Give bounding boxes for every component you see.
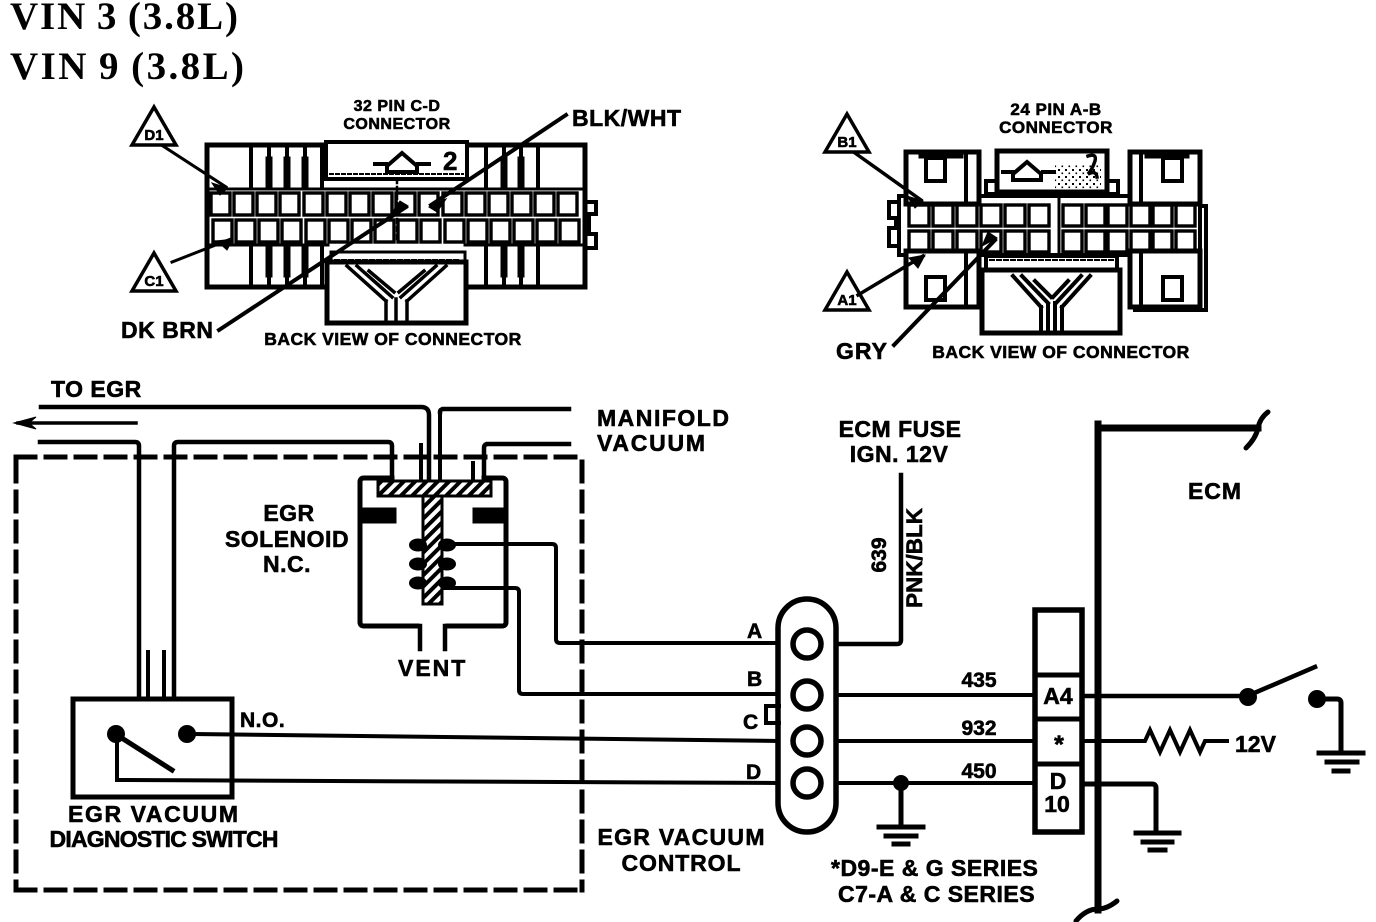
svg-text:VENT: VENT bbox=[398, 655, 467, 681]
svg-text:10: 10 bbox=[1044, 791, 1070, 817]
pin row 1 (16 cavities) bbox=[211, 193, 577, 215]
wire from coil top to pin A bbox=[444, 544, 779, 643]
svg-text:VACUUM: VACUUM bbox=[597, 430, 705, 456]
EGR pipe lower line left segment bbox=[40, 442, 139, 699]
wire 435 pin B to ECM A4 bbox=[836, 693, 1036, 697]
solenoid center port right line bbox=[438, 412, 442, 481]
svg-text:435: 435 bbox=[961, 669, 996, 692]
strip divider 3 bbox=[1035, 762, 1082, 767]
svg-text:BACK VIEW OF CONNECTOR: BACK VIEW OF CONNECTOR bbox=[932, 342, 1190, 362]
wire A4 to switch contact bbox=[1082, 694, 1244, 699]
EGR flow arrow bbox=[18, 421, 136, 425]
svg-text:D: D bbox=[746, 761, 761, 784]
leader BLK/WHT to pin bbox=[431, 115, 566, 205]
svg-text:VIN 9 (3.8L): VIN 9 (3.8L) bbox=[10, 45, 244, 88]
leader from A1 to connector bbox=[858, 256, 923, 295]
svg-text:D1: D1 bbox=[144, 127, 163, 144]
svg-text:DK BRN: DK BRN bbox=[121, 317, 213, 343]
EGR pipe lower line right segment / switch tee bbox=[174, 442, 392, 699]
top-right mounting block bbox=[1130, 152, 1200, 204]
keyway label plate bbox=[997, 151, 1107, 192]
pin B circle bbox=[793, 681, 821, 709]
switch arm bbox=[117, 735, 172, 770]
svg-text:932: 932 bbox=[961, 717, 996, 740]
wire switch to pin D bbox=[117, 780, 779, 783]
pin row 2 (12 cavities) bbox=[909, 231, 1195, 252]
plate dotted line bbox=[330, 173, 463, 175]
connector lock tab at C bbox=[766, 706, 779, 723]
solenoid left port stub bbox=[419, 445, 423, 481]
solenoid plunger (hatched) bbox=[423, 496, 442, 604]
top-right block hole bbox=[1163, 158, 1182, 181]
svg-text:CONNECTOR: CONNECTOR bbox=[343, 116, 450, 133]
plate arrow glyph bbox=[1003, 162, 1054, 180]
strain relief flap bbox=[331, 252, 465, 262]
solenoid pole piece right bbox=[473, 508, 506, 523]
solenoid EGR body outline bbox=[360, 478, 506, 626]
pin A circle bbox=[793, 630, 821, 658]
svg-text:SOLENOID: SOLENOID bbox=[225, 526, 349, 552]
svg-text:N.O.: N.O. bbox=[240, 709, 285, 732]
triangle B1 bbox=[825, 114, 869, 152]
svg-text:C1: C1 bbox=[144, 273, 163, 290]
svg-text:TO EGR: TO EGR bbox=[51, 376, 142, 402]
switch port inner tubes bbox=[148, 652, 164, 699]
plate arrow glyph bbox=[375, 153, 429, 172]
solenoid right port stub bbox=[471, 463, 475, 481]
leader from D1 to connector bbox=[163, 146, 226, 187]
strip divider 1 bbox=[1035, 673, 1082, 678]
wire to ground from switch bbox=[1319, 699, 1363, 771]
wire from coil bottom to pin B bbox=[444, 588, 779, 694]
junction dot on wire 450 bbox=[893, 775, 909, 791]
svg-text:CONNECTOR: CONNECTOR bbox=[999, 118, 1113, 137]
plate side hook left bbox=[986, 181, 997, 194]
strain relief Y strap bbox=[1013, 276, 1090, 331]
solenoid pole piece left bbox=[362, 508, 396, 523]
pin C circle bbox=[793, 727, 821, 755]
svg-text:ECM: ECM bbox=[1188, 478, 1242, 504]
connector top band divider line bbox=[208, 188, 584, 191]
svg-text:EGR VACUUM: EGR VACUUM bbox=[68, 801, 238, 827]
plate numeral 2 bbox=[1088, 155, 1097, 177]
ECM bottom break squiggle bbox=[1076, 901, 1117, 921]
svg-text:C: C bbox=[743, 711, 758, 734]
A4 switch contact dot left bbox=[1239, 688, 1257, 706]
EGR pipe upper line bbox=[41, 407, 429, 481]
plate side hook right bbox=[1107, 181, 1118, 194]
svg-text:639: 639 bbox=[868, 537, 891, 572]
svg-text:MANIFOLD: MANIFOLD bbox=[597, 405, 729, 431]
bottom-right mounting block bbox=[1130, 251, 1200, 307]
bottom wing slots left bbox=[251, 246, 322, 285]
svg-text:B1: B1 bbox=[837, 134, 856, 151]
svg-text:CONTROL: CONTROL bbox=[622, 850, 741, 876]
band right shadow edge bbox=[1135, 206, 1206, 310]
A4 switch arm bbox=[1252, 667, 1315, 694]
dashed enclosure box bbox=[16, 457, 582, 890]
svg-text:EGR: EGR bbox=[263, 500, 314, 526]
svg-text:ECM FUSE: ECM FUSE bbox=[839, 416, 962, 442]
svg-text:BLK/WHT: BLK/WHT bbox=[572, 105, 682, 131]
ECM boundary vertical bbox=[1095, 424, 1102, 910]
wire 639 pin A to ECM fuse bbox=[836, 475, 901, 644]
svg-text:2: 2 bbox=[443, 146, 457, 176]
solenoid coil turns bbox=[409, 539, 456, 590]
ECM top break squiggle bbox=[1246, 412, 1268, 448]
ECM connector strip bbox=[1035, 610, 1082, 832]
triangle C1 bbox=[132, 253, 176, 291]
strain relief Y strap bbox=[347, 266, 446, 321]
leader DK BRN to pin bbox=[219, 207, 406, 330]
bottom-right block hole bbox=[1163, 277, 1182, 300]
triangle A1 bbox=[825, 272, 869, 310]
bottom-left mounting block bbox=[906, 251, 979, 307]
pin row 1 (12 cavities) bbox=[909, 205, 1195, 226]
keyway label plate bbox=[326, 142, 467, 179]
switch contact left bbox=[107, 725, 125, 743]
EGR vacuum control connector body bbox=[778, 599, 836, 832]
strain relief flap bbox=[986, 256, 1117, 270]
svg-text:DIAGNOSTIC SWITCH: DIAGNOSTIC SWITCH bbox=[50, 826, 279, 852]
ground at wire 450 bbox=[879, 783, 923, 844]
svg-text:450: 450 bbox=[961, 760, 996, 783]
switch contact right bbox=[178, 725, 196, 743]
svg-text:B: B bbox=[747, 668, 762, 691]
top-left block hole bbox=[926, 158, 945, 181]
manifold vacuum pipe lower line bbox=[484, 444, 569, 481]
svg-text:A4: A4 bbox=[1043, 683, 1073, 709]
leader from C1 to connector bbox=[172, 239, 231, 262]
A4 switch contact dot right bbox=[1308, 690, 1326, 708]
ECM boundary top horizontal bbox=[1098, 425, 1258, 432]
wire from left contact down bbox=[115, 737, 119, 779]
connector right-edge notch bbox=[585, 202, 596, 248]
plate stipple bbox=[1055, 164, 1101, 189]
wire D10 to ground bbox=[1082, 784, 1179, 850]
svg-text:*: * bbox=[1054, 731, 1064, 759]
manifold vacuum pipe upper line bbox=[440, 409, 569, 412]
top wing slots right bbox=[486, 147, 538, 188]
svg-text:N.C.: N.C. bbox=[263, 551, 311, 577]
resistor on wire 932 bbox=[1082, 730, 1227, 752]
svg-text:C7-A & C SERIES: C7-A & C SERIES bbox=[838, 881, 1035, 907]
EGR vacuum diagnostic switch box bbox=[73, 699, 232, 797]
pin D circle bbox=[793, 769, 821, 797]
vent tube lines bbox=[420, 626, 445, 649]
leader GRY to pin bbox=[894, 240, 995, 345]
svg-text:12V: 12V bbox=[1235, 731, 1277, 757]
pin row 2 (16 cavities) bbox=[213, 220, 579, 242]
svg-text:IGN. 12V: IGN. 12V bbox=[850, 441, 949, 467]
bottom-left block hole bbox=[926, 277, 945, 300]
strip divider 2 bbox=[1035, 717, 1082, 722]
connector lower band divider line bbox=[208, 244, 584, 247]
svg-text:EGR VACUUM: EGR VACUUM bbox=[598, 824, 765, 850]
bottom wing slots right bbox=[486, 246, 538, 285]
svg-text:*D9-E & G SERIES: *D9-E & G SERIES bbox=[831, 855, 1038, 881]
svg-text:BACK VIEW OF CONNECTOR: BACK VIEW OF CONNECTOR bbox=[264, 329, 522, 349]
svg-text:32 PIN C-D: 32 PIN C-D bbox=[354, 98, 441, 115]
svg-text:VIN 3 (3.8L): VIN 3 (3.8L) bbox=[10, 0, 238, 38]
band center divider bbox=[1058, 196, 1061, 255]
svg-text:A1: A1 bbox=[837, 292, 856, 309]
svg-text:A: A bbox=[747, 620, 762, 643]
top-left mounting block bbox=[906, 152, 979, 204]
wire 932 pin C to ECM bbox=[836, 739, 1036, 743]
connector C1/D1 body outline bbox=[207, 145, 585, 287]
wire 450 pin D to ECM D10 bbox=[836, 781, 1036, 785]
svg-text:24 PIN A-B: 24 PIN A-B bbox=[1010, 100, 1101, 119]
plate center dashed line bbox=[396, 179, 399, 243]
connector A1/B1 central band bbox=[899, 196, 1200, 255]
strain relief block bbox=[982, 270, 1120, 333]
solenoid top seat (hatched) bbox=[378, 481, 491, 496]
svg-text:PNK/BLK: PNK/BLK bbox=[902, 507, 927, 608]
leader from B1 to connector bbox=[855, 153, 921, 200]
triangle D1 bbox=[132, 107, 176, 145]
band left bracket notch bbox=[889, 202, 899, 246]
strain relief block bbox=[327, 262, 466, 323]
svg-text:GRY: GRY bbox=[836, 338, 888, 364]
wire switch to pin C bbox=[194, 734, 779, 741]
top wing slots left bbox=[251, 147, 322, 188]
